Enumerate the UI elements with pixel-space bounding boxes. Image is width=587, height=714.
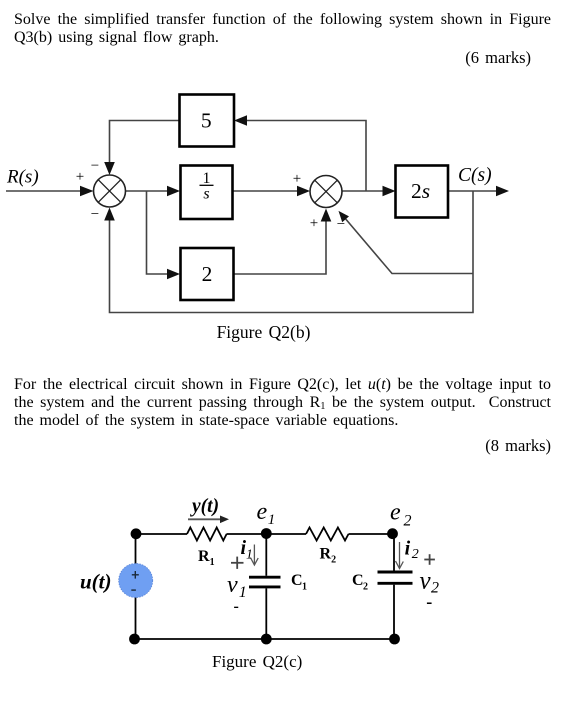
svg-text:2: 2 [412,547,419,562]
svg-text:2: 2 [202,262,213,286]
svg-text:i: i [405,538,411,560]
svg-text:Figure Q2(c): Figure Q2(c) [212,652,302,671]
svg-text:u(t): u(t) [80,570,112,594]
svg-text:C: C [291,572,303,589]
svg-text:+: + [76,169,84,185]
svg-text:v: v [227,572,238,598]
svg-text:Figure Q2(b): Figure Q2(b) [217,322,311,342]
svg-text:e: e [390,499,401,525]
svg-text:2: 2 [331,555,336,566]
svg-text:R: R [198,548,210,565]
svg-text:y(t): y(t) [190,496,219,517]
svg-text:1: 1 [210,557,215,568]
svg-text:−: − [91,158,99,174]
svg-text:1: 1 [268,512,276,528]
svg-text:1: 1 [239,584,247,601]
svg-text:+: + [310,216,318,232]
svg-text:5: 5 [201,109,212,133]
svg-text:-: - [234,598,239,615]
svg-text:+: + [293,171,301,187]
svg-text:C(s): C(s) [458,165,492,186]
svg-text:-: - [426,591,432,611]
svg-text:1: 1 [203,170,211,187]
svg-text:s: s [203,186,209,203]
svg-text:e: e [257,499,268,525]
svg-text:R: R [320,546,332,563]
svg-text:−: − [91,207,99,223]
svg-text:2: 2 [363,582,368,593]
svg-text:1: 1 [246,547,253,562]
svg-text:−: − [337,217,345,233]
svg-text:C: C [352,572,364,589]
svg-text:1: 1 [302,582,307,593]
svg-text:2: 2 [404,513,412,530]
svg-text:R(s): R(s) [6,167,39,188]
svg-text:2s: 2s [411,179,430,203]
